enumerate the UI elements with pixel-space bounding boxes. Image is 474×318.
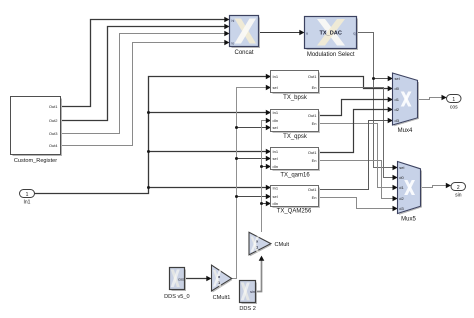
block TX_bpsk: [271, 71, 320, 102]
svg-text:Out2: Out2: [49, 118, 58, 123]
svg-text:CMult: CMult: [275, 242, 290, 248]
svg-text:In1: In1: [24, 200, 31, 206]
node In1 bus junctions: [147, 111, 150, 114]
svg-text:sel: sel: [273, 156, 278, 161]
svg-text:d0: d0: [399, 175, 404, 180]
svg-text:u: u: [306, 30, 308, 35]
block CMult1: [212, 265, 232, 301]
svg-text:TX_QAM256: TX_QAM256: [277, 209, 312, 215]
svg-text:1: 1: [26, 192, 29, 198]
svg-text:CMult1: CMult1: [213, 295, 231, 301]
block Mux4: [393, 73, 419, 134]
wire In1 branch qam16: [149, 151, 271, 153]
svg-text:lo: lo: [232, 42, 235, 46]
block DDS 2: [239, 281, 256, 312]
svg-text:TX_bpsk: TX_bpsk: [283, 95, 308, 101]
block TX_QAM256: [271, 185, 320, 214]
wire Out1 to Concat in1: [61, 20, 229, 107]
svg-text:d1: d1: [399, 185, 404, 190]
block DDS v5_0: [164, 268, 190, 300]
svg-text:Custom_Register: Custom_Register: [14, 158, 57, 164]
svg-text:1: 1: [452, 97, 455, 103]
svg-text:sel: sel: [273, 85, 278, 90]
wire Out4 to Concat in4: [61, 43, 229, 146]
wire TX_QAM256 En to Mux5 d3: [319, 198, 397, 209]
block Concat U_concat: [230, 16, 260, 57]
svg-text:d2: d2: [395, 107, 400, 112]
svg-text:d3: d3: [399, 206, 404, 211]
svg-text:sel: sel: [273, 194, 278, 199]
svg-text:d1: d1: [395, 97, 400, 102]
svg-text:Mux5: Mux5: [401, 217, 416, 223]
svg-text:Out1: Out1: [308, 113, 317, 118]
svg-text:TX_qam16: TX_qam16: [280, 173, 310, 179]
wire Mux5 output to port 2: [421, 186, 450, 188]
wire DDS v5_0 cos to CMult1: [185, 278, 211, 280]
svg-text:En: En: [312, 158, 317, 163]
svg-text:In1: In1: [273, 149, 279, 154]
wire In1 branch QAM256: [149, 187, 271, 189]
svg-text:Mux4: Mux4: [398, 128, 413, 134]
svg-text:sel: sel: [395, 76, 400, 81]
svg-text:dIn: dIn: [273, 118, 279, 123]
wire In1 branch qpsk: [149, 112, 271, 114]
svg-text:In1: In1: [273, 185, 279, 190]
svg-text:d3: d3: [395, 118, 400, 123]
svg-text:q: q: [353, 30, 355, 35]
svg-text:sin: sin: [455, 193, 462, 199]
svg-text:En: En: [312, 121, 317, 126]
wire TX_bpsk Out1 to Mux4 d0: [319, 77, 392, 89]
svg-text:In1: In1: [273, 110, 279, 115]
wire A branch qam16 mid: [237, 158, 271, 160]
wire TX_bpsk En to Mux5 d0: [319, 88, 397, 178]
svg-text:Out3: Out3: [49, 131, 58, 136]
svg-text:Out1: Out1: [308, 150, 317, 155]
wire Mux4 output to port 1: [418, 98, 446, 100]
wire CMult output vertical B: [262, 121, 271, 233]
wire In1 bus: [35, 77, 271, 194]
svg-text:2: 2: [457, 185, 460, 191]
node B junctions: [260, 165, 263, 168]
wire TX_qam16 Out1 to Mux4 d2: [319, 110, 392, 153]
svg-text:dIn: dIn: [273, 164, 279, 169]
svg-text:d0: d0: [395, 86, 400, 91]
port In1 input oval: [20, 190, 35, 206]
svg-text:DDS 2: DDS 2: [239, 306, 255, 312]
wire A branch qpsk sel: [237, 127, 271, 129]
svg-text:Modulation Select: Modulation Select: [307, 52, 355, 58]
svg-text:dIn: dIn: [273, 201, 279, 206]
svg-text:TX_qpsk: TX_qpsk: [283, 134, 308, 140]
wire B branch qam16 low: [262, 166, 271, 168]
svg-text:cos: cos: [450, 105, 458, 111]
block TX_qam16: [271, 148, 320, 179]
wire DDS 2 sin to CMult input: [256, 257, 262, 292]
wire Modulation Select sel bus down: [357, 33, 397, 168]
svg-text:Out1: Out1: [49, 104, 58, 109]
wire Out2 to Concat in2: [61, 27, 229, 121]
svg-text:hi: hi: [232, 19, 235, 23]
svg-text:sin: sin: [250, 290, 255, 294]
block Modulation Select: [305, 17, 358, 59]
wire TX_QAM256 Out1 to Mux4 d3: [319, 121, 392, 190]
svg-text:Out4: Out4: [49, 143, 58, 148]
wire TX_qpsk Out1 to Mux4 d1: [319, 100, 392, 116]
node sel junction: [372, 77, 375, 80]
node A junctions: [235, 126, 238, 129]
wire Out3 to Concat in3: [61, 34, 229, 134]
wire Concat to Modulation Select: [259, 32, 304, 34]
block Custom_Register: [11, 97, 62, 165]
svg-text:Concat: Concat: [234, 50, 253, 56]
svg-text:sel: sel: [399, 165, 404, 170]
svg-text:DDS v5_0: DDS v5_0: [164, 294, 190, 300]
svg-text:cos: cos: [178, 277, 184, 281]
wire TX_qam16 En to Mux5 d2: [319, 161, 397, 199]
svg-text:En: En: [312, 195, 317, 200]
svg-text:In1: In1: [273, 74, 279, 79]
port 2 sin output oval: [451, 183, 466, 199]
block Mux5: [398, 162, 422, 223]
block CMult rotated: [249, 232, 290, 256]
wire sel branch to Mux4: [374, 78, 392, 80]
svg-text:En: En: [312, 85, 317, 90]
svg-text:TX_DAC: TX_DAC: [320, 31, 342, 37]
wire CMult1 output vertical A: [232, 88, 270, 279]
svg-text:Out1: Out1: [308, 74, 317, 79]
svg-text:sel: sel: [273, 125, 278, 130]
port 1 cos output oval: [447, 95, 462, 111]
wire TX_qpsk En to Mux5 d1: [319, 124, 397, 188]
wire B branch QAM256 low: [262, 203, 271, 205]
svg-text:Out1: Out1: [308, 187, 317, 192]
block TX_qpsk: [271, 110, 320, 141]
svg-text:d2: d2: [399, 196, 404, 201]
wire A branch QAM256 mid: [237, 196, 271, 198]
